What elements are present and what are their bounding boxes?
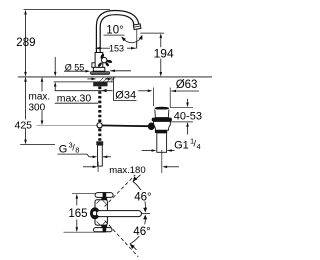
label G1 1/4 leader: [168, 150, 175, 152]
mounting nut: [93, 82, 107, 86]
dim Ø34 hole arrows: [87, 78, 93, 80]
drain flange: [152, 118, 172, 122]
basin surface line: [18, 76, 212, 78]
svg-text:Ø34: Ø34: [115, 90, 136, 102]
drain extension lines: [152, 88, 154, 107]
dim 40-53 arrows: [187, 99, 189, 105]
swivel collar: [90, 207, 100, 219]
dim 194 extension line: [140, 32, 164, 34]
svg-text:289: 289: [16, 37, 35, 49]
drain axis line: [161, 150, 163, 173]
dim 194 line: [160, 36, 162, 75]
spout axis stub: [142, 213, 150, 215]
hose tube: [98, 145, 103, 166]
plan handle top neck: [101, 197, 107, 200]
text 46 upper: [133, 190, 154, 201]
text max300: [28, 92, 51, 112]
wire 153 right extension tick: [136, 41, 138, 49]
wire bottom extension line: [20, 144, 55, 146]
dim max300 line: [41, 80, 43, 123]
pop-up rod: [100, 124, 149, 127]
rod junction: [97, 123, 102, 128]
extension line to max300: [37, 124, 97, 126]
plan handle bottom neck: [101, 225, 107, 228]
drain body bottom band: [155, 130, 167, 133]
drain body: [154, 121, 171, 130]
svg-text:max.180: max.180: [109, 165, 145, 176]
plan handle bottom hub: [103, 227, 107, 232]
threaded shank dashed: [98, 87, 101, 142]
faucet body lower: [93, 67, 104, 71]
deck hatching: [99, 77, 104, 82]
text 46 lower: [132, 224, 153, 236]
svg-text:425: 425: [15, 119, 33, 131]
dim 425 line: [20, 119, 35, 130]
svg-text:Ø63: Ø63: [176, 79, 198, 91]
spout aerator tip: [133, 24, 141, 30]
escutcheon base: [90, 71, 110, 75]
dim 165 line: [76, 196, 78, 205]
handle petal down-left: [97, 62, 103, 68]
dim 289 line: [25, 12, 27, 74]
handle petal down-right: [105, 62, 110, 67]
plan spout bar: [97, 211, 142, 217]
dashed swivel line upper: [105, 175, 136, 207]
outlet axis line: [136, 30, 138, 49]
plan handle bottom bar: [94, 228, 113, 232]
drain plug top: [155, 107, 169, 110]
plan body chamfer marks: [97, 200, 101, 203]
swivel arc lower: [130, 217, 145, 250]
wire 165 top extension: [72, 193, 96, 195]
handle hub: [102, 57, 107, 62]
svg-text:46°: 46°: [133, 226, 150, 238]
svg-text:4: 4: [197, 142, 201, 151]
label G3/8 leader: [58, 153, 88, 155]
label max.30 lines: [55, 90, 113, 92]
dashed swivel line lower: [105, 221, 138, 257]
dim Ø63 arrows: [138, 90, 148, 92]
deck bottom line: [54, 81, 114, 83]
handle petal up: [100, 53, 105, 59]
faucet body upper: [95, 53, 103, 68]
handle petal right: [106, 59, 112, 63]
spout gooseneck inner: [100, 15, 134, 53]
svg-text:40-53: 40-53: [174, 111, 202, 123]
drain tailpipe: [157, 133, 167, 152]
spout gooseneck outer: [96, 11, 139, 54]
plan handle top hub: [103, 192, 107, 198]
dim 153: [96, 47, 111, 49]
plan body: [95, 200, 107, 225]
dim Ø55 arrows: [64, 70, 87, 72]
plan handle top bar: [95, 193, 113, 198]
svg-text:153: 153: [109, 43, 124, 53]
hose connector: [96, 141, 103, 145]
wire top extension line: [24, 9, 111, 11]
drain knob: [148, 123, 155, 131]
label max.30 arrows: [54, 57, 56, 73]
angle arc 10deg: [122, 36, 142, 43]
svg-text:max.30: max.30: [57, 92, 92, 104]
text 194: [153, 47, 175, 58]
svg-text:165: 165: [68, 208, 87, 220]
wire 10deg underline: [104, 34, 125, 36]
drain plug cylinder: [155, 110, 169, 118]
label Ø34 box: [113, 77, 115, 101]
svg-text:46°: 46°: [134, 192, 151, 204]
svg-text:194: 194: [154, 46, 174, 60]
svg-text:Ø 55: Ø 55: [65, 62, 85, 72]
wire 165 bottom extension: [64, 231, 104, 233]
swivel arc upper: [133, 175, 145, 211]
faucet body ledge: [92, 63, 95, 68]
svg-text:8: 8: [75, 146, 79, 155]
svg-text:300: 300: [29, 102, 46, 113]
svg-text:G1: G1: [174, 140, 189, 152]
dim max180: [83, 166, 94, 168]
svg-text:max.: max.: [29, 92, 51, 103]
dim 40-53 extension lines: [170, 106, 193, 108]
